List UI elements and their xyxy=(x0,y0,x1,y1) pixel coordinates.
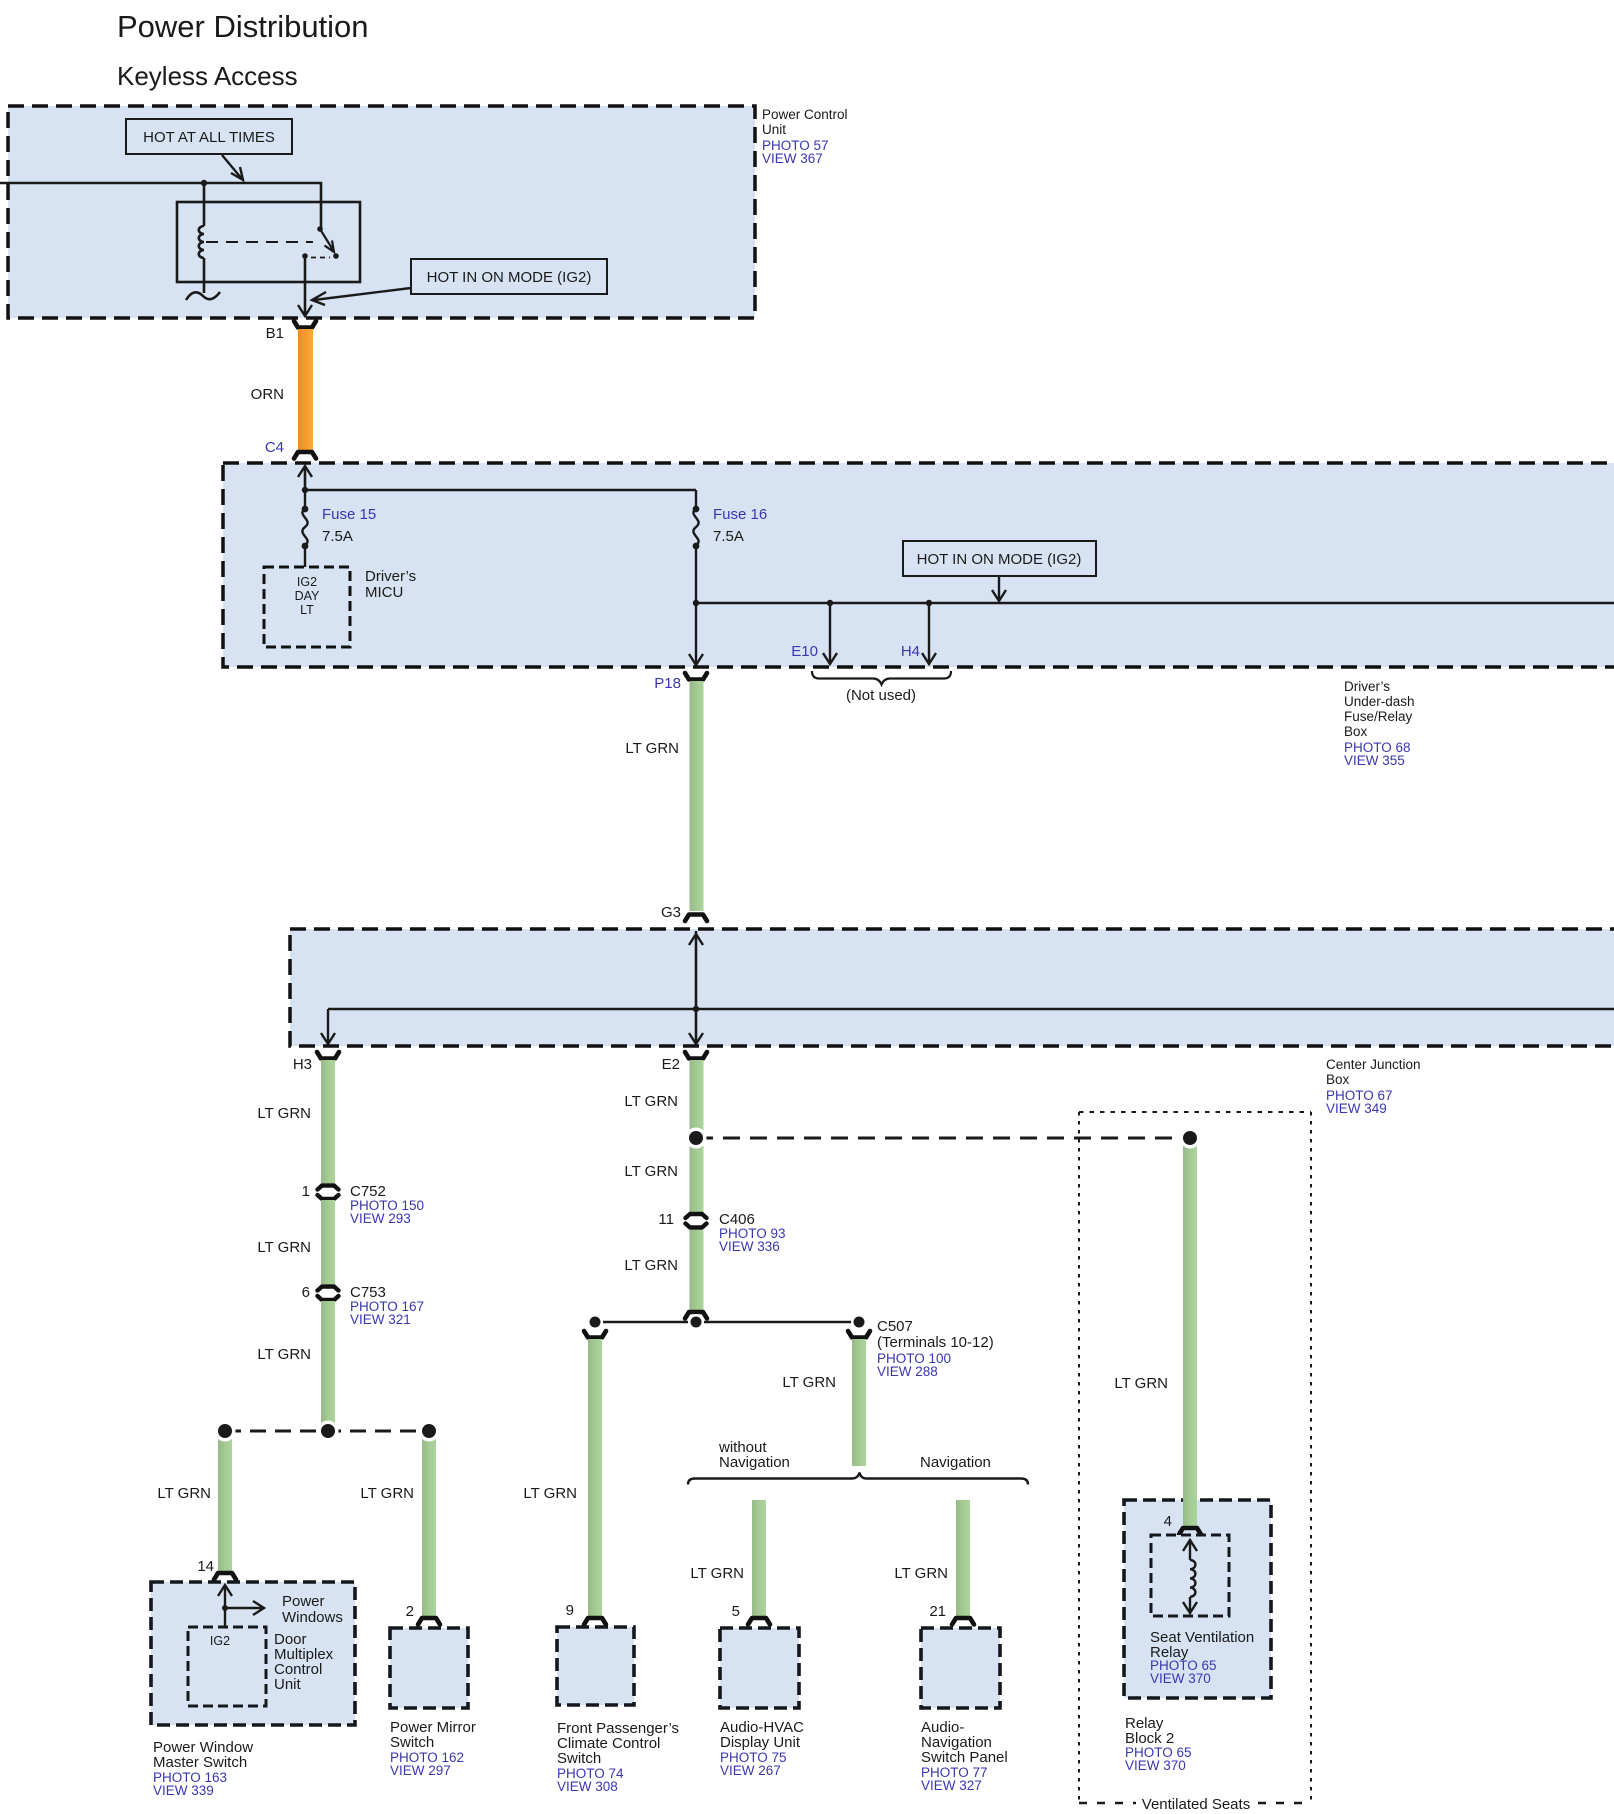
label LT GRN 3 xyxy=(257,1239,311,1256)
connector E2 bottom xyxy=(685,1312,707,1319)
svg-text:7.5A: 7.5A xyxy=(713,528,744,545)
svg-text:C4: C4 xyxy=(265,439,284,456)
connector C753 xyxy=(318,1287,339,1301)
label 5 xyxy=(732,1603,740,1620)
wire C4 entry arrow xyxy=(298,466,312,490)
wire: battery feed xyxy=(0,183,321,229)
svg-text:LT GRN: LT GRN xyxy=(257,1239,311,1256)
svg-text:C507: C507 xyxy=(877,1318,913,1335)
svg-text:HOT IN ON MODE (IG2): HOT IN ON MODE (IG2) xyxy=(917,551,1082,568)
svg-text:11: 11 xyxy=(658,1211,674,1228)
under-dash fuse relay box xyxy=(223,463,1614,667)
label E2 xyxy=(662,1056,680,1073)
label Door Multiplex Control Unit xyxy=(274,1631,334,1693)
svg-text:Driver’s: Driver’s xyxy=(365,568,416,585)
label LT GRN 12 xyxy=(690,1565,744,1582)
label LT GRN 10 xyxy=(523,1485,577,1502)
svg-text:Center Junction: Center Junction xyxy=(1326,1057,1421,1072)
svg-text:7.5A: 7.5A xyxy=(322,528,353,545)
label C4 xyxy=(265,439,284,456)
label C507 xyxy=(877,1318,994,1379)
label Audio-HVAC Display Unit xyxy=(720,1719,804,1778)
label LT GRN 8 xyxy=(624,1163,678,1180)
node bus right xyxy=(851,1314,867,1330)
label LT GRN 14 xyxy=(1114,1375,1168,1392)
label LT GRN 2 xyxy=(257,1105,311,1122)
svg-text:Navigation: Navigation xyxy=(719,1454,790,1471)
connector 5 xyxy=(748,1618,770,1625)
svg-text:5: 5 xyxy=(732,1603,740,1620)
splice node B xyxy=(318,1421,339,1442)
label Front Passenger's Climate Control Switch xyxy=(557,1720,679,1794)
label 21 xyxy=(929,1603,946,1620)
label Ventilated Seats xyxy=(1142,1796,1250,1813)
connector C4 xyxy=(294,452,316,459)
svg-text:LT GRN: LT GRN xyxy=(624,1163,678,1180)
label Driver's MICU xyxy=(365,568,416,601)
svg-text:VIEW 288: VIEW 288 xyxy=(877,1364,938,1379)
svg-text:LT GRN: LT GRN xyxy=(894,1565,948,1582)
arrow from IG2 label to bus xyxy=(992,576,1006,601)
label 11 / C406 xyxy=(658,1211,785,1254)
svg-text:Switch: Switch xyxy=(557,1750,601,1767)
svg-text:Fuse 15: Fuse 15 xyxy=(322,506,376,523)
svg-text:(Not used): (Not used) xyxy=(846,687,916,704)
arrow from IG2 label to wire xyxy=(312,288,411,305)
wire LT GRN E2 seg2 xyxy=(690,1230,704,1310)
svg-text:1: 1 xyxy=(302,1183,310,1200)
relay switch xyxy=(302,226,339,259)
label (Not used) xyxy=(846,687,916,704)
wire G3 through xyxy=(689,931,703,1044)
label 2 xyxy=(406,1603,414,1620)
wire LT GRN H3 seg3 xyxy=(321,1301,335,1431)
splice node E xyxy=(1180,1128,1201,1149)
svg-text:Box: Box xyxy=(1326,1072,1350,1087)
svg-text:Display Unit: Display Unit xyxy=(720,1734,801,1751)
svg-text:VIEW 349: VIEW 349 xyxy=(1326,1101,1387,1116)
label E10 xyxy=(791,643,818,660)
wire H4 drop xyxy=(922,603,936,664)
splice node A xyxy=(215,1421,236,1442)
subtitle xyxy=(117,61,298,91)
node bus-fuse16 xyxy=(693,600,699,606)
wire: IG2 bus xyxy=(696,602,1614,605)
wire LT GRN E2 seg1 xyxy=(690,1060,704,1213)
svg-text:MICU: MICU xyxy=(365,584,403,601)
audio hvac display unit box xyxy=(720,1628,799,1708)
center junction box xyxy=(290,929,1614,1046)
svg-text:LT GRN: LT GRN xyxy=(360,1485,414,1502)
svg-text:6: 6 xyxy=(302,1284,310,1301)
wire LT GRN to FPCCS xyxy=(588,1339,602,1616)
IG2 box pwms xyxy=(188,1627,266,1706)
label without Navigation xyxy=(718,1439,790,1471)
label 14 xyxy=(197,1558,214,1575)
node fuse feed xyxy=(302,487,308,493)
wire LT GRN to AHDU xyxy=(752,1500,766,1616)
svg-text:VIEW 327: VIEW 327 xyxy=(921,1778,982,1793)
svg-text:Fuse/Relay: Fuse/Relay xyxy=(1344,709,1413,724)
svg-text:E10: E10 xyxy=(791,643,818,660)
power control unit box xyxy=(8,106,755,318)
svg-text:VIEW 370: VIEW 370 xyxy=(1150,1671,1211,1686)
svg-text:Fuse 16: Fuse 16 xyxy=(713,506,767,523)
svg-text:14: 14 xyxy=(197,1558,214,1575)
svg-text:VIEW 308: VIEW 308 xyxy=(557,1779,618,1794)
label Center Junction Box xyxy=(1326,1057,1421,1116)
svg-text:Box: Box xyxy=(1344,724,1368,739)
label H3 xyxy=(293,1056,312,1073)
svg-text:IG2: IG2 xyxy=(210,1634,230,1648)
svg-text:VIEW 293: VIEW 293 xyxy=(350,1211,411,1226)
svg-text:Unit: Unit xyxy=(762,122,786,137)
label HOT IN ON MODE (IG2) #2 xyxy=(903,541,1096,576)
connector B1 xyxy=(294,321,316,328)
label P18 xyxy=(654,675,681,692)
wire LT GRN to ANSP xyxy=(956,1500,970,1616)
svg-text:VIEW 367: VIEW 367 xyxy=(762,151,823,166)
connector C406 xyxy=(686,1214,707,1228)
audio navigation switch panel box xyxy=(921,1628,1000,1708)
connector C752 xyxy=(318,1186,339,1200)
svg-text:Navigation: Navigation xyxy=(920,1454,991,1471)
label LT GRN 7 xyxy=(624,1093,678,1110)
svg-text:Power Control: Power Control xyxy=(762,107,848,122)
svg-text:IG2: IG2 xyxy=(297,575,317,589)
svg-text:Driver’s: Driver’s xyxy=(1344,679,1390,694)
front passenger climate control switch box xyxy=(557,1627,634,1705)
svg-text:LT GRN: LT GRN xyxy=(257,1105,311,1122)
wire LT GRN P18-G3 xyxy=(690,681,704,911)
svg-text:E2: E2 xyxy=(662,1056,680,1073)
connector 9 top xyxy=(584,1331,606,1338)
label LT GRN 5 xyxy=(157,1485,211,1502)
ventilated seats dotted box xyxy=(1079,1112,1311,1803)
wire splice dashed right xyxy=(696,1137,1190,1140)
label Power Mirror Switch xyxy=(390,1719,476,1778)
wire splice dashed left xyxy=(225,1430,429,1433)
connector 9 xyxy=(584,1618,606,1625)
svg-text:4: 4 xyxy=(1164,1513,1172,1530)
svg-text:B1: B1 xyxy=(266,325,284,342)
wire P18 exit arrow xyxy=(689,654,703,665)
fuse F16 xyxy=(693,490,700,663)
relay K1 box xyxy=(177,202,360,282)
label LT GRN 9 xyxy=(624,1257,678,1274)
svg-text:DAY: DAY xyxy=(295,589,320,603)
label 4 xyxy=(1164,1513,1172,1530)
wire LT GRN to PMS xyxy=(422,1436,436,1616)
svg-text:H3: H3 xyxy=(293,1056,312,1073)
svg-text:(Terminals 10-12): (Terminals 10-12) xyxy=(877,1334,994,1351)
label LT GRN 6 xyxy=(360,1485,414,1502)
connector 21 xyxy=(952,1618,974,1625)
wire: fuse bus xyxy=(305,489,696,492)
label ORN xyxy=(251,386,284,403)
connector H3 xyxy=(317,1052,339,1059)
svg-text:Master Switch: Master Switch xyxy=(153,1754,247,1771)
title xyxy=(117,9,369,44)
label Relay Block 2 xyxy=(1125,1715,1192,1773)
svg-text:Switch Panel: Switch Panel xyxy=(921,1749,1008,1766)
svg-text:LT GRN: LT GRN xyxy=(257,1346,311,1363)
node H4 xyxy=(926,600,932,606)
svg-text:LT: LT xyxy=(300,603,314,617)
svg-text:Under-dash: Under-dash xyxy=(1344,694,1415,709)
relay link dashed xyxy=(206,241,313,243)
label LT GRN 11 xyxy=(782,1374,836,1391)
svg-text:Power: Power xyxy=(282,1593,325,1610)
svg-text:VIEW 297: VIEW 297 xyxy=(390,1763,451,1778)
wire LT GRN C507 xyxy=(852,1339,866,1466)
brace navigation options xyxy=(688,1473,1028,1485)
svg-text:LT GRN: LT GRN xyxy=(625,740,679,757)
svg-text:H4: H4 xyxy=(901,643,920,660)
label Navigation xyxy=(920,1454,991,1471)
label Power Windows xyxy=(282,1593,343,1626)
splice node D xyxy=(686,1128,707,1149)
label Fuse 16 xyxy=(713,506,767,545)
svg-text:LT GRN: LT GRN xyxy=(782,1374,836,1391)
fuse F15 xyxy=(302,490,309,567)
svg-text:LT GRN: LT GRN xyxy=(690,1565,744,1582)
node pwms xyxy=(222,1605,228,1611)
svg-text:Power Distribution: Power Distribution xyxy=(117,9,369,44)
svg-text:VIEW 336: VIEW 336 xyxy=(719,1239,780,1254)
label 9 xyxy=(566,1602,574,1619)
svg-text:VIEW 339: VIEW 339 xyxy=(153,1783,214,1798)
svg-text:Windows: Windows xyxy=(282,1609,343,1626)
svg-text:21: 21 xyxy=(929,1603,946,1620)
label LT GRN 1 xyxy=(625,740,679,757)
svg-text:LT GRN: LT GRN xyxy=(624,1257,678,1274)
connector 2 xyxy=(418,1618,440,1625)
brace not used xyxy=(812,671,951,685)
label 1 / C752 xyxy=(302,1183,424,1226)
svg-text:HOT AT ALL TIMES: HOT AT ALL TIMES xyxy=(143,129,275,146)
svg-text:ORN: ORN xyxy=(251,386,284,403)
label HOT IN ON MODE (IG2) #1 xyxy=(411,259,607,294)
arrow power windows xyxy=(225,1601,264,1615)
connector C507 top xyxy=(848,1331,870,1338)
wire H3 drop xyxy=(321,1009,335,1044)
wire: relay output drop xyxy=(298,256,312,316)
power window master switch box xyxy=(151,1582,355,1725)
svg-text:LT GRN: LT GRN xyxy=(523,1485,577,1502)
svg-text:Keyless Access: Keyless Access xyxy=(117,61,298,91)
relay coil xyxy=(199,183,204,293)
connector 4 xyxy=(1179,1528,1201,1535)
svg-text:VIEW 355: VIEW 355 xyxy=(1344,753,1405,768)
svg-text:9: 9 xyxy=(566,1602,574,1619)
connector 14 xyxy=(214,1573,236,1580)
label H4 xyxy=(901,643,920,660)
svg-text:P18: P18 xyxy=(654,675,681,692)
label Audio-Navigation Switch Panel xyxy=(921,1719,1008,1793)
svg-text:LT GRN: LT GRN xyxy=(1114,1375,1168,1392)
label B1 xyxy=(266,325,284,342)
svg-text:2: 2 xyxy=(406,1603,414,1620)
connector P18 xyxy=(685,673,707,680)
label HOT AT ALL TIMES xyxy=(126,119,292,154)
wire ORN xyxy=(298,329,313,452)
node bus left xyxy=(587,1314,603,1330)
node: feed junction xyxy=(201,180,207,186)
svg-text:Ventilated Seats: Ventilated Seats xyxy=(1142,1796,1250,1813)
svg-text:VIEW 321: VIEW 321 xyxy=(350,1312,411,1327)
svg-text:HOT IN ON MODE (IG2): HOT IN ON MODE (IG2) xyxy=(427,269,592,286)
label Power Control Unit xyxy=(762,107,848,166)
wire LT GRN to relay xyxy=(1183,1143,1197,1527)
svg-text:VIEW 370: VIEW 370 xyxy=(1125,1758,1186,1773)
connector E2 xyxy=(685,1052,707,1059)
svg-text:LT GRN: LT GRN xyxy=(157,1485,211,1502)
seat ventilation relay inner box xyxy=(1151,1535,1229,1616)
label Fuse 15 xyxy=(322,506,376,545)
node cjb xyxy=(693,1006,699,1012)
power mirror switch box xyxy=(390,1628,468,1708)
connector G3 xyxy=(685,915,707,922)
wire C507 bus xyxy=(595,1321,859,1324)
seat ventilation relay coil xyxy=(1183,1540,1197,1613)
arrow from HOT AT ALL TIMES to feed wire xyxy=(222,155,243,180)
label Power Window Master Switch xyxy=(153,1739,253,1798)
ground squiggle xyxy=(186,292,220,300)
wire LT GRN H3 seg1 xyxy=(321,1060,335,1183)
IG2 DAY LT box xyxy=(264,567,350,647)
node bus mid xyxy=(688,1314,704,1330)
splice node C xyxy=(419,1421,440,1442)
wire LT GRN to PWMS xyxy=(218,1436,232,1571)
node E10 xyxy=(827,600,833,606)
svg-text:LT GRN: LT GRN xyxy=(624,1093,678,1110)
label Driver's Under-dash Fuse/Relay Box xyxy=(1344,679,1415,768)
label LT GRN 13 xyxy=(894,1565,948,1582)
wire cjb bus xyxy=(328,1008,1614,1011)
svg-text:VIEW 267: VIEW 267 xyxy=(720,1763,781,1778)
svg-text:G3: G3 xyxy=(661,904,681,921)
wire E10 drop xyxy=(823,603,837,664)
wire LT GRN H3 seg2 xyxy=(321,1200,335,1284)
pwms entry arrow xyxy=(218,1585,232,1627)
label Seat Ventilation Relay xyxy=(1150,1629,1254,1686)
svg-text:Switch: Switch xyxy=(390,1734,434,1751)
label G3 xyxy=(661,904,681,921)
svg-text:Unit: Unit xyxy=(274,1676,302,1693)
label 6 / C753 xyxy=(302,1284,424,1327)
label LT GRN 4 xyxy=(257,1346,311,1363)
relay block 2 box xyxy=(1124,1500,1271,1698)
